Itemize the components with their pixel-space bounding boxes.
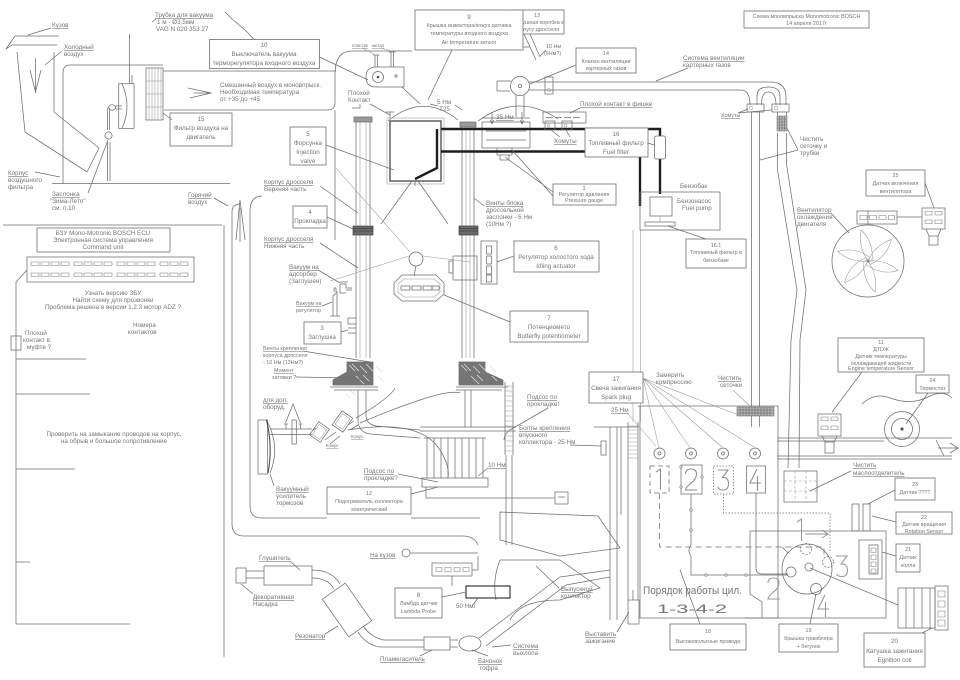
booster shaft [270,429,312,435]
svg-text:Корпус: Корпус [8,170,28,177]
downpipe vertical [560,570,610,585]
aux equipment pins [284,424,303,429]
svg-text:14 апреля 2017г: 14 апреля 2017г [786,21,827,27]
gasket upper left [353,226,373,235]
title box [744,11,869,28]
bad contact connector stub [352,104,394,118]
fuel filter 16 component [655,136,666,159]
svg-text:Высоковольтные провода: Высоковольтные провода [676,639,740,645]
label Холодный воздух [45,43,94,65]
fuel tank [640,182,720,230]
svg-text:Butterfly potentiometer: Butterfly potentiometer [517,333,580,340]
vacuum tube leader curve [245,30,262,60]
throttle right column [462,127,474,358]
wire cyl1 dashed [660,493,825,559]
box 5 injection valve label [290,127,394,170]
intake manifold comb [422,438,488,487]
svg-text:Смешанный воздух в моновпрыск.: Смешанный воздух в моновпрыск. [220,81,321,89]
fuel line return thick [441,152,640,207]
hose clamps fuel [545,121,572,130]
svg-text:Датчик: Датчик [899,555,917,561]
wire stub 2 [16,393,90,395]
svg-text:Винты крепления: Винты крепления [263,346,307,352]
svg-text:воздух: воздух [64,51,84,58]
cylinder 3 box dotted [714,466,734,494]
hall sensor component [859,540,882,579]
svg-text:Подсос по: Подсос по [364,468,395,475]
svg-text:Резонатор: Резонатор [295,633,326,640]
box 14 vent valve label [530,48,636,84]
hot air arrow [236,200,245,242]
svg-text:Топливный фильтр: Топливный фильтр [588,139,644,147]
manifold runner left [358,390,420,438]
label mixed air temp [220,81,321,103]
cold air duct walls [17,52,99,172]
duct to throttle bottom line [164,103,335,110]
enclosure top edge [352,47,530,51]
svg-text:Винты блока: Винты блока [486,199,524,207]
distributor contact center [805,563,813,571]
box 22 rotation sensor label [872,512,952,535]
box 16.1 tank filter label [668,226,746,268]
svg-text:10 Нм: 10 Нм [488,462,506,469]
labels пластик метал [352,43,391,54]
pipe to bellows [450,640,458,647]
ECU main harness wire [16,270,27,624]
svg-text:10: 10 [260,42,268,49]
svg-text:Свеча зажигания: Свеча зажигания [591,385,641,392]
ECU title box [37,228,170,252]
svg-text:Нижняя часть: Нижняя часть [264,243,305,250]
svg-text:пластик: пластик [352,43,368,48]
box 17 spark plug label [589,372,643,403]
hose between couplings [312,421,358,444]
switch pins [373,52,396,67]
label выпускной коллектор [536,566,593,600]
svg-text:ДТОЖ: ДТОЖ [873,347,889,353]
throttle lower left column [356,235,370,358]
hose coupling 1 [310,422,330,443]
svg-text:Заслонка: Заслонка [52,191,80,198]
svg-text:воздушного: воздушного [8,177,42,184]
enclosure top-left corner [335,51,352,74]
mixed air arrow [188,88,212,98]
fuel pump [645,197,712,226]
throttle flange hatch top [354,117,372,122]
svg-text:Заглушка: Заглушка [308,334,336,341]
svg-text:Кузов: Кузов [52,22,69,29]
leader to box1 [505,150,553,196]
svg-text:- 10 Нм (13Нм?): - 10 Нм (13Нм?) [263,360,303,366]
wire cyl3 dotted [724,494,831,552]
lambda sensor on pipe [466,586,510,598]
ECU connector [27,257,194,282]
wire stub 1 [16,358,86,360]
svg-text:3: 3 [320,325,324,332]
svg-text:двигателя: двигателя [797,221,826,228]
wire cyl4 [756,493,788,574]
pipe muffler to resonator [312,570,340,589]
svg-text:Крышка трамблера: Крышка трамблера [784,636,832,642]
vent pipe to right [529,82,770,90]
distributor circle [782,544,832,594]
long boundary line x224 [223,225,225,657]
svg-text:7: 7 [547,315,551,322]
svg-text:23: 23 [912,482,918,488]
vacuum line to vane [130,34,133,84]
svg-text:Fuel pump: Fuel pump [682,205,712,212]
box 4 gasket label [293,206,353,229]
label бачонок гофра [472,650,502,672]
box 25 fan sensor label [866,170,934,208]
svg-text:Датчик ????: Датчик ???? [900,490,931,496]
throttle upper left column [356,122,370,225]
svg-text:Бензобак: Бензобак [680,182,707,190]
svg-text:температуры входного воздуха: температуры входного воздуха [430,31,508,37]
distributor digit 3 [836,556,848,577]
svg-text:17: 17 [612,376,620,383]
svg-text:Клапан вентиляции: Клапан вентиляции [581,59,630,65]
spark plug 1 [654,448,665,459]
flap blade [108,142,111,181]
label чистить сеточки [718,375,752,408]
label винты блока дроссельной [474,198,532,228]
svg-text:18: 18 [705,629,711,635]
label вакуумный усилитель [270,474,309,507]
svg-text:Engine temperature Sensor: Engine temperature Sensor [848,366,914,372]
svg-text:прокладке?: прокладке? [364,475,398,482]
svg-text:T25: T25 [439,106,450,113]
box 6 idling actuator label [514,241,599,272]
engine block outline [638,406,778,618]
svg-text:коллектор: коллектор [561,593,591,600]
svg-text:Air temperature sensor: Air temperature sensor [442,40,497,46]
svg-text:Бачонок: Бачонок [478,658,502,665]
label 5 Нм T25 [430,99,462,113]
svg-text:+ бегунок: + бегунок [797,644,821,650]
label система вентиляции [656,55,745,81]
lambda wires [410,553,478,586]
svg-text:Rotation Sensor: Rotation Sensor [905,529,944,535]
injector spray lines [381,181,448,224]
box 7 potentiometer label [510,311,588,342]
label корпус воздушного фильтра [8,170,60,191]
crank position marker [628,590,639,624]
svg-text:Схема моновпрыска Monomotronic: Схема моновпрыска Monomotronic BOSCH [753,14,861,20]
svg-text:Номера: Номера [133,322,156,329]
clamp on vent pipe [545,77,553,94]
label для доп оборуд [263,397,301,423]
svg-text:Spark plug: Spark plug [601,394,632,401]
vent pipe corner right [741,82,786,105]
svg-text:Выключатель вакуума: Выключатель вакуума [232,51,297,58]
fuel line supply thick [441,129,660,194]
shaft cross plate [292,420,296,444]
label выставить зажигание [585,612,629,645]
svg-text:9: 9 [467,14,471,21]
port stub on column [348,318,356,333]
air filter element [146,68,163,120]
leader bottom contact [800,594,816,624]
svg-text:21: 21 [905,547,911,553]
svg-text:Электронная система управления: Электронная система управления [53,237,153,244]
svg-text:Прокладка: Прокладка [294,218,326,225]
svg-text:11: 11 [878,340,884,346]
fan connector [857,211,897,224]
label плохой контакт (throttle) [348,89,390,115]
hot air duct inner wall [250,212,480,518]
svg-text:Узнать версию ЗБУ: Узнать версию ЗБУ [85,290,142,297]
label подсос по прокладке right [504,394,559,440]
cooling fan [832,225,904,297]
right edge break arrow [936,440,958,456]
svg-text:"Зима-Лето": "Зима-Лето" [50,198,85,205]
label трубка для вакуума [152,11,245,33]
cylinder 4 box [747,466,766,493]
fuel hose to engine [633,230,641,422]
svg-text:Топливный фильтр в: Топливный фильтр в [690,249,742,256]
label момент затяжки [272,368,368,382]
svg-text:5 Нм: 5 Нм [437,99,451,106]
svg-text:10 Нм: 10 Нм [546,44,561,50]
svg-text:бензобаке: бензобаке [703,258,729,264]
cold air arrow [30,58,41,93]
svg-text:Выпускной: Выпускной [561,585,593,593]
svg-text:вентилятора: вентилятора [880,189,912,195]
wire stub 3 [16,468,75,470]
svg-text:картерных газов: картерных газов [586,66,627,72]
svg-text:Fuel filter: Fuel filter [603,149,629,156]
label на кузов [370,549,410,559]
svg-text:4: 4 [308,209,312,216]
fan sensor connector [922,208,945,245]
svg-text:24: 24 [930,378,936,384]
injector dome arc [388,106,458,121]
label плохой контакт в фишке [570,100,653,113]
svg-text:Катушка зажигания: Катушка зажигания [866,648,923,655]
svg-text:Датчик температуры: Датчик температуры [855,354,907,360]
svg-text:Контакт: Контакт [348,97,371,104]
leader actuator to box6 [497,256,514,262]
heater vane [119,84,134,129]
svg-text:Корпус дросселя: Корпус дросселя [264,179,313,186]
svg-text:Хомуты: Хомуты [721,113,740,119]
spark plug leader fan [643,378,754,448]
cam belt upper [505,382,513,545]
exhaust downpipe diagonal [479,577,566,646]
distributor digit 4 [818,595,829,617]
deck line left of block [420,427,638,431]
svg-text:valve: valve [301,158,316,165]
svg-text:Крышка инжектора/кожух датчика: Крышка инжектора/кожух датчика [427,23,512,29]
box 19 distributor cap label [779,624,838,652]
label узнать версию [45,290,182,311]
label заслонка зима-лето [50,140,108,212]
svg-text:Потенциомето: Потенциомето [528,324,571,331]
distributor contact right [823,557,834,568]
svg-text:холла: холла [901,563,916,569]
svg-text:зажигание: зажигание [585,638,616,645]
box 24 thermostat label [906,375,949,424]
distributor digit 1 [797,519,828,541]
label 25 Нм [611,407,656,446]
mesh screen on pipe [777,116,787,131]
pipe resonator down [358,626,424,647]
svg-text:сеточку и: сеточку и [800,143,828,150]
gasket pad lower left [333,362,383,398]
separator line above ECU [3,224,222,226]
adsorber vacuum fitting [340,282,352,293]
svg-text:Пламегаситель: Пламегаситель [380,656,426,663]
flap pivot [105,132,112,139]
svg-text:Насадка: Насадка [253,601,278,608]
resonator [322,583,371,637]
svg-text:22: 22 [921,515,927,521]
label подсос по прокладке left [364,468,438,482]
svg-text:Чистить: Чистить [853,462,877,469]
flange line left [330,387,378,390]
label резонатор [295,626,338,640]
injector unit box [387,118,444,184]
svg-text:терморегулятора входного возду: терморегулятора входного воздуха [213,60,316,67]
winter-summer flap rod [108,108,110,130]
box 8 lambda label [395,588,466,618]
spark plug 4 [750,448,761,459]
distributor contact top [801,544,812,555]
label кожух 1 [326,443,339,448]
box 18 hv wires label [670,570,746,650]
label система выхлопа [492,643,539,657]
svg-text:корпуса дросселя: корпуса дросселя [263,353,308,359]
flap actuator elbow [109,105,123,111]
label чистить сеточку и трубки [760,128,828,160]
svg-text:14: 14 [603,51,609,57]
label вакуум на регулятор [296,301,332,314]
hose curve right-down [348,427,448,478]
svg-text:Кожух: Кожух [351,434,364,439]
hose coupling 2 [332,411,352,432]
box 3 plug label [304,322,348,344]
label номера контактов [128,322,157,336]
svg-text:Плохой: Плохой [348,89,370,97]
throttle shaft circle [409,252,423,276]
label вакуум на адсорбер [289,264,340,285]
thermostat hose wave [862,393,952,404]
svg-text:Датчик вращения: Датчик вращения [902,522,946,528]
fan to connector stem [868,211,872,225]
svg-text:Подогреватель коллектора: Подогреватель коллектора [335,499,403,505]
box 23 sensor label [868,478,935,504]
svg-text:Корпус дросселя: Корпус дросселя [264,236,313,243]
svg-text:коллектора - 25 Нм: коллектора - 25 Нм [519,439,575,446]
flame arrestor [424,637,450,650]
label вентилятор охлаждения [797,207,849,233]
svg-text:25: 25 [893,173,899,179]
cylinder 2 box [680,465,704,494]
mount bracket wire [426,487,555,498]
label чистить маслоотделитель [810,462,905,491]
svg-text:Вакуум на: Вакуум на [296,301,322,307]
clamp left vent [747,104,764,112]
svg-text:от +35 до +45: от +35 до +45 [220,96,261,103]
fuel chamber box [482,118,530,148]
svg-text:Idling actuator: Idling actuator [536,263,576,270]
svg-text:на обрыв и большое сопротивлен: на обрыв и большое сопротивление [61,437,168,445]
label хомуты fuel [551,130,577,145]
svg-text:15: 15 [197,116,205,123]
engine temp sensor [818,414,841,453]
wire coupler square [11,336,21,350]
svg-text:заслонки - 6 Нм: заслонки - 6 Нм [486,214,532,221]
svg-text:Чистить: Чистить [800,136,824,143]
svg-text:Болты крепления: Болты крепления [519,425,570,432]
svg-text:25 Нм: 25 Нм [611,407,629,414]
regulator vacuum fitting cone [330,288,340,316]
oil separator grid [784,471,817,502]
label порядок работы [643,585,742,616]
svg-text:Плохой контакт в фишке: Плохой контакт в фишке [580,100,653,108]
valve cover mesh strip [737,407,774,416]
label 10 Нм manifold [478,462,506,476]
svg-text:впускного: впускного [519,432,548,439]
muffler [236,566,312,585]
label корпус дросселя верх [264,179,358,213]
bad contact connector strip [543,112,586,123]
svg-text:Трубка для вакуума: Трубка для вакуума [155,11,214,19]
distributor contact left [786,567,796,577]
ignition coil connector [935,586,948,630]
exhaust bellows [459,636,481,651]
svg-text:13: 13 [534,13,540,19]
leader octagon to box7 [444,295,510,322]
svg-text:Command unit: Command unit [83,244,124,251]
spark plug 3 [718,448,729,459]
svg-text:БЗУ Mono-Motronic BOSCH ECU: БЗУ Mono-Motronic BOSCH ECU [56,230,151,237]
gasket pad lower right [459,362,514,393]
svg-text:Термостат: Термостат [919,386,946,392]
svg-text:маслоотделитель: маслоотделитель [853,470,905,477]
svg-text:метал: метал [372,43,385,48]
svg-text:Горячий: Горячий [188,191,212,199]
svg-text:1: 1 [582,185,586,192]
svg-text:Момент: Момент [274,368,294,374]
box 13 air box label [510,10,564,60]
svg-text:оборуд.: оборуд. [263,403,286,411]
svg-text:Фильтр воздуха на: Фильтр воздуха на [174,125,229,132]
lambda connector [432,563,472,576]
svg-text:фильтра: фильтра [8,184,34,191]
box 21 hall sensor label [882,544,920,572]
exhaust manifold shape [495,560,600,620]
label пламегаситель [380,650,432,663]
label декоративная насадка [241,584,294,608]
clamp right vent [772,104,789,112]
potentiometer octagon [394,275,444,301]
cold air duct mouth [6,36,59,49]
wire stub 4 [16,561,30,563]
svg-text:Форсунка: Форсунка [294,140,322,147]
svg-text:(Заглушен): (Заглушен) [289,278,322,285]
vent valve circle [511,77,530,96]
head bolt flange [601,441,606,455]
svg-text:Бензонасос: Бензонасос [677,198,711,205]
svg-text:VAG N 020 353 27: VAG N 020 353 27 [156,26,209,33]
svg-text:На кузов: На кузов [370,552,396,559]
svg-text:картерных газов: картерных газов [683,62,731,69]
svg-text:(10Нм ?): (10Нм ?) [486,221,511,228]
svg-text:Вакуум на: Вакуум на [289,264,319,271]
brake booster [258,420,275,474]
